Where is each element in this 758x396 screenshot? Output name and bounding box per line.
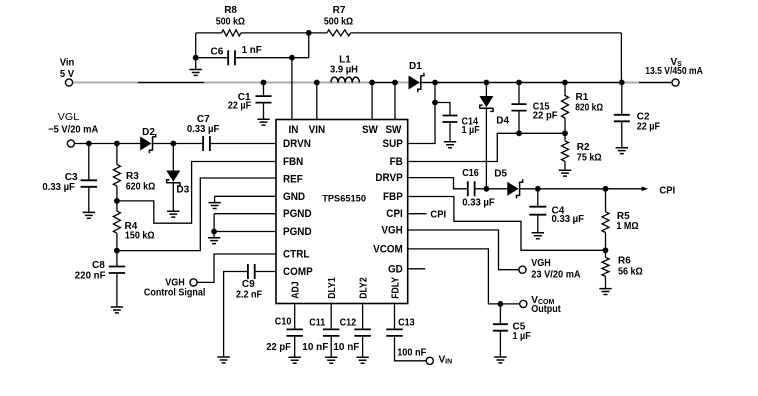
svg-text:FBP: FBP: [383, 191, 403, 203]
svg-text:DLY1: DLY1: [327, 277, 338, 299]
svg-text:C12: C12: [340, 317, 357, 328]
svg-text:23 V/20 mA: 23 V/20 mA: [531, 269, 580, 280]
svg-text:5 V: 5 V: [60, 68, 74, 80]
svg-text:Vin: Vin: [60, 56, 75, 68]
svg-text:VGL: VGL: [58, 111, 80, 123]
svg-text:VIN: VIN: [309, 124, 326, 136]
svg-text:0.33 µF: 0.33 µF: [552, 214, 585, 225]
svg-text:R6: R6: [618, 256, 631, 267]
svg-text:150 kΩ: 150 kΩ: [125, 231, 155, 242]
svg-text:220 nF: 220 nF: [75, 270, 106, 281]
svg-text:VCOM: VCOM: [373, 243, 403, 255]
svg-text:620 kΩ: 620 kΩ: [126, 181, 156, 192]
svg-text:D1: D1: [409, 61, 422, 72]
svg-text:PGND: PGND: [283, 226, 312, 238]
svg-text:FB: FB: [390, 156, 403, 168]
svg-text:13.5 V/450 mA: 13.5 V/450 mA: [645, 66, 703, 77]
svg-text:C16: C16: [462, 168, 479, 179]
svg-text:SW: SW: [385, 124, 401, 136]
svg-text:D4: D4: [496, 115, 509, 126]
svg-text:10 nF: 10 nF: [333, 342, 359, 353]
svg-text:D5: D5: [494, 169, 507, 180]
svg-text:1 µF: 1 µF: [462, 125, 480, 136]
svg-text:SW: SW: [362, 124, 378, 136]
svg-text:CPI: CPI: [430, 209, 446, 221]
svg-text:Output: Output: [531, 304, 561, 315]
svg-text:COMP: COMP: [283, 266, 313, 278]
svg-text:D2: D2: [142, 127, 155, 138]
svg-text:22 pF: 22 pF: [533, 111, 558, 122]
svg-text:3.9 µH: 3.9 µH: [330, 64, 358, 75]
svg-text:R7: R7: [333, 5, 346, 16]
svg-text:500 kΩ: 500 kΩ: [324, 17, 353, 28]
svg-text:C10: C10: [275, 316, 292, 327]
svg-text:C13: C13: [398, 317, 415, 328]
svg-text:56 kΩ: 56 kΩ: [618, 267, 643, 278]
svg-text:0.33 µF: 0.33 µF: [187, 124, 220, 135]
svg-text:820 kΩ: 820 kΩ: [575, 103, 603, 114]
svg-text:0.33 µF: 0.33 µF: [462, 198, 495, 209]
svg-text:ADJ: ADJ: [291, 281, 302, 298]
svg-text:100 nF: 100 nF: [397, 348, 426, 359]
svg-text:R8: R8: [224, 5, 237, 16]
svg-text:IN: IN: [289, 124, 299, 136]
svg-text:SUP: SUP: [383, 138, 403, 150]
svg-text:DRVN: DRVN: [283, 138, 311, 150]
svg-text:C6: C6: [211, 46, 224, 57]
svg-text:1 nF: 1 nF: [242, 45, 262, 56]
svg-text:22 µF: 22 µF: [228, 101, 251, 112]
svg-text:GND: GND: [283, 191, 305, 203]
svg-text:500 kΩ: 500 kΩ: [216, 17, 245, 28]
svg-text:FBN: FBN: [283, 156, 303, 168]
svg-text:DRVP: DRVP: [375, 172, 402, 184]
svg-text:75 kΩ: 75 kΩ: [577, 152, 602, 163]
svg-text:TPS65150: TPS65150: [322, 193, 366, 204]
svg-text:10 nF: 10 nF: [302, 342, 328, 353]
svg-text:CPI: CPI: [659, 184, 675, 196]
svg-text:REF: REF: [283, 174, 303, 186]
svg-text:R1: R1: [576, 92, 589, 103]
svg-text:C9: C9: [242, 279, 255, 290]
svg-text:GD: GD: [388, 263, 403, 275]
svg-text:CPI: CPI: [386, 208, 403, 220]
svg-text:22 pF: 22 pF: [266, 342, 291, 353]
svg-text:CTRL: CTRL: [283, 249, 310, 261]
svg-text:1 µF: 1 µF: [513, 331, 531, 342]
svg-text:VGH: VGH: [381, 225, 402, 237]
svg-text:DLY2: DLY2: [359, 277, 370, 299]
svg-text:1 MΩ: 1 MΩ: [616, 221, 638, 232]
svg-text:C11: C11: [309, 317, 325, 328]
svg-text:D3: D3: [176, 185, 189, 196]
svg-text:PGND: PGND: [283, 208, 312, 220]
svg-text:VGH: VGH: [531, 258, 551, 269]
svg-text:FDLY: FDLY: [390, 277, 401, 299]
svg-text:22 µF: 22 µF: [637, 122, 660, 133]
svg-text:2.2 nF: 2.2 nF: [236, 290, 262, 301]
svg-text:−5 V/20 mA: −5 V/20 mA: [48, 124, 98, 135]
svg-text:Control Signal: Control Signal: [144, 287, 206, 298]
svg-text:0.33 µF: 0.33 µF: [42, 182, 75, 193]
